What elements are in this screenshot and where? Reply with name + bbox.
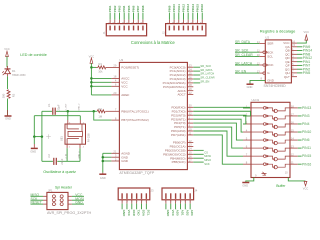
- wire PD0 to ULN1 input 1: [193, 106, 249, 109]
- svg-text:11: 11: [291, 161, 294, 165]
- svg-text:Buffer: Buffer: [276, 184, 286, 188]
- svg-text:18: 18: [113, 75, 116, 79]
- svg-text:GND: GND: [122, 210, 126, 218]
- U2 GND pin 8: [250, 80, 265, 83]
- svg-text:SR_LATCH: SR_LATCH: [200, 72, 214, 76]
- ground (IC): [102, 173, 104, 174]
- connector J1 (matrix): [106, 24, 146, 36]
- J2 pin 4 wire+label PIN12: [183, 26, 184, 31]
- wire+label net SR_SCK at U3: [193, 66, 200, 68]
- svg-text:12: 12: [257, 61, 260, 65]
- svg-text:PIN5: PIN5: [303, 71, 311, 75]
- svg-text:13: 13: [291, 145, 294, 149]
- J2 pin 8 wire+label PIN16: [202, 26, 203, 31]
- connector JP1 SPI header: [47, 192, 68, 209]
- svg-text:10: 10: [285, 171, 288, 175]
- J1 pin 2 wire+label PIN2: [114, 26, 115, 31]
- svg-text:22pF: 22pF: [57, 104, 61, 110]
- svg-text:PIN4: PIN4: [302, 122, 310, 126]
- svg-text:LED de contrôle: LED de contrôle: [20, 53, 46, 57]
- ULN1 channel 3 pins 3/16 label PIN4: [243, 123, 251, 125]
- IC U2 SN74HC595D shift register box: [265, 40, 291, 83]
- J1 pin 4 wire+label PIN4: [123, 26, 124, 31]
- svg-text:JP1: JP1: [48, 188, 53, 192]
- svg-text:PC6(RESET): PC6(RESET): [121, 66, 139, 70]
- U2 pin 4 QE wire+label PIN1: [291, 61, 297, 63]
- svg-text:G: G: [267, 71, 270, 75]
- junction AVCC: [90, 77, 93, 80]
- svg-text:U2: U2: [265, 36, 269, 40]
- J1 pin 3 wire+label PIN3: [119, 26, 120, 31]
- wire VCC trunk vertical: [90, 63, 92, 95]
- svg-text:PIN11: PIN11: [302, 146, 311, 150]
- wire ground left vertical: [33, 116, 35, 137]
- svg-text:PIN12: PIN12: [181, 4, 185, 13]
- svg-text:GND: GND: [267, 79, 275, 83]
- junction ground link dots: [33, 135, 36, 138]
- svg-text:390: 390: [1, 93, 5, 98]
- wire D1 to resistor R3: [7, 76, 9, 89]
- svg-text:VCC: VCC: [171, 210, 175, 217]
- wire VCC pin6: [91, 85, 111, 87]
- connector J3: [118, 188, 150, 200]
- svg-text:SR_SCK: SR_SCK: [200, 64, 211, 68]
- ULN1 GND pin 9: [246, 178, 254, 183]
- svg-text:PIN7: PIN7: [136, 5, 140, 12]
- JP1 wire+label GND: [68, 203, 72, 205]
- IC ULN1 buffer box: [251, 102, 290, 177]
- U2 pin 6 QG wire+label PIN2: [291, 68, 297, 70]
- JP1 wire+label RESET: [31, 203, 44, 205]
- svg-text:PIN11: PIN11: [177, 4, 181, 13]
- resistor R3 390: [7, 90, 10, 99]
- U2 pin 1 QB wire+label PIN14: [291, 50, 297, 52]
- svg-text:GND_4: GND_4: [78, 151, 80, 159]
- svg-text:1: 1: [69, 147, 71, 149]
- svg-text:GND: GND: [100, 176, 106, 180]
- svg-text:RXD: RXD: [132, 210, 136, 217]
- JP1 wire+label SCK: [31, 199, 44, 201]
- wire XTAL1 net (top): [42, 110, 52, 112]
- svg-text:Connexions à la Matrice: Connexions à la Matrice: [131, 40, 176, 45]
- J4 pin 6 wire+label AD3: [189, 193, 190, 199]
- wire+label net SR_EN at U3: [193, 82, 200, 84]
- LED D1: [2, 69, 10, 75]
- svg-text:17: 17: [291, 112, 294, 116]
- J1 pin 8 wire+label PIN8: [142, 26, 143, 31]
- capacitor C1 22pF: [52, 108, 54, 115]
- JP1 pin circles 3/4: [52, 199, 55, 202]
- svg-text:GND: GND: [30, 150, 36, 154]
- U2 pin 13 G wire+label SR_EN: [235, 72, 259, 74]
- svg-text:HSMX-C650: HSMX-C650: [12, 74, 26, 77]
- J2 pin 7 wire+label PIN15: [197, 26, 198, 31]
- J4 pin 3 wire+label AD0: [175, 193, 176, 199]
- ULN1 channel 2 pins 2/17 label PIN3: [243, 115, 251, 117]
- JP1 wire+label VCC: [68, 195, 72, 197]
- U2 pin 15 QA wire+label PIN9: [291, 46, 297, 48]
- svg-text:PIN1: PIN1: [108, 5, 112, 12]
- connector J2 (matrix): [166, 24, 206, 36]
- svg-text:6: 6: [59, 204, 60, 206]
- svg-text:GND: GND: [75, 201, 83, 205]
- J3 pin 1 wire+label GND: [121, 193, 122, 199]
- JP1 wire+label MOSI: [68, 199, 72, 201]
- svg-text:PIN14: PIN14: [191, 4, 195, 13]
- svg-text:PIN3: PIN3: [302, 114, 310, 118]
- svg-text:GND: GND: [247, 85, 253, 89]
- junction X_OUT node: [67, 110, 70, 113]
- wire+label net SCK at U3: [193, 161, 203, 163]
- svg-text:MOSI: MOSI: [204, 154, 211, 158]
- svg-text:PB5(SCK): PB5(SCK): [172, 160, 186, 164]
- svg-text:R2: R2: [98, 107, 102, 111]
- J3 pin 6 wire+label SCL: [146, 193, 147, 199]
- JP1 wire+label MISO: [31, 195, 44, 197]
- svg-text:18: 18: [291, 104, 294, 108]
- J3 pin 3 wire+label RXD: [131, 193, 132, 199]
- svg-text:SR_LATCH: SR_LATCH: [235, 62, 253, 66]
- svg-text:ATMEGA328P_TQFP: ATMEGA328P_TQFP: [119, 171, 154, 175]
- svg-text:16: 16: [292, 39, 295, 43]
- svg-text:SR_DATA: SR_DATA: [235, 40, 251, 44]
- svg-text:PIN6: PIN6: [132, 5, 136, 12]
- svg-text:SER: SER: [267, 42, 274, 46]
- svg-text:VCC: VCC: [304, 30, 310, 34]
- svg-text:RCK: RCK: [267, 63, 273, 67]
- svg-text:1: 1: [55, 196, 56, 198]
- svg-text:GND: GND: [121, 159, 129, 163]
- node origin cross: [46, 134, 51, 139]
- svg-text:R1: R1: [99, 62, 103, 66]
- svg-text:J4: J4: [194, 189, 197, 193]
- svg-text:15: 15: [291, 128, 294, 132]
- svg-text:AD1: AD1: [180, 210, 184, 216]
- ULN1 channel 5 pins 5/14 label PIN6: [243, 139, 251, 141]
- J2 pin 3 wire+label PIN11: [178, 26, 179, 31]
- J2 pin 6 wire+label PIN14: [192, 26, 193, 31]
- J1 pin 5 wire+label PIN5: [128, 26, 129, 31]
- svg-text:13: 13: [257, 70, 260, 74]
- svg-text:1M: 1M: [98, 114, 102, 118]
- svg-text:GND: GND: [166, 210, 170, 218]
- wire AVCC: [91, 77, 111, 79]
- wire XTAL2 net (bottom): [42, 160, 53, 162]
- svg-text:Oscillateur à quartz: Oscillateur à quartz: [43, 170, 76, 174]
- svg-text:SCK: SCK: [204, 162, 210, 166]
- ULN1 channel 6 pins 6/13 label PIN11: [243, 147, 251, 149]
- svg-text:J1: J1: [102, 31, 106, 34]
- svg-text:4: 4: [59, 200, 60, 202]
- svg-text:GND_2: GND_2: [78, 103, 80, 111]
- svg-text:16: 16: [291, 120, 294, 124]
- crystal pin stubs: [67, 111, 69, 120]
- svg-text:PIN16: PIN16: [302, 162, 311, 166]
- wire PD3 to ULN1 input 4: [193, 119, 243, 132]
- svg-text:SCL: SCL: [267, 55, 273, 59]
- svg-text:PIN15: PIN15: [302, 154, 311, 158]
- J4 pin 2 wire+label VCC: [170, 193, 171, 199]
- J4 pin 5 wire+label AD2: [185, 193, 186, 199]
- svg-text:PIN3: PIN3: [117, 5, 121, 12]
- ground (oscillator): [31, 147, 38, 149]
- svg-text:PIN9: PIN9: [167, 5, 171, 12]
- wire XTAL2 to pin 8: [94, 111, 112, 120]
- svg-text:AD3: AD3: [190, 210, 194, 216]
- svg-text:29: 29: [113, 64, 116, 68]
- svg-text:PIN8: PIN8: [141, 5, 145, 12]
- svg-text:SR_DATA: SR_DATA: [200, 68, 212, 72]
- J4 pin 4 wire+label AD1: [180, 193, 181, 199]
- ULN1 channel 1 pins 1/18 label PIN13: [243, 107, 251, 109]
- wire+label net SR_LATCH at U3: [193, 74, 200, 76]
- svg-text:AD2: AD2: [185, 210, 189, 216]
- wire AREF: [91, 94, 111, 96]
- J2 pin 2 wire+label PIN10: [173, 26, 174, 31]
- junction VCC pin4: [90, 81, 93, 84]
- wire PD4 to ULN1 input 5: [193, 123, 243, 140]
- ULN1 COM pin 10 to VCC: [288, 178, 305, 181]
- ground (U2): [247, 83, 254, 85]
- wire PD7 to ULN1 input 8: [193, 135, 243, 164]
- svg-text:12: 12: [291, 153, 294, 157]
- J2 pin 1 wire+label PIN9: [169, 26, 170, 31]
- wire PD5 to ULN1 input 6: [193, 127, 243, 148]
- U2 pin 3 QD wire+label PIN12: [291, 57, 297, 59]
- J1 pin 6 wire+label PIN6: [133, 26, 134, 31]
- svg-text:11: 11: [257, 49, 260, 53]
- svg-text:C1: C1: [47, 103, 51, 107]
- svg-text:PIN10: PIN10: [172, 4, 176, 13]
- svg-text:X_IN: X_IN: [66, 153, 68, 158]
- J2 pin 5 wire+label PIN13: [187, 26, 188, 31]
- wire PD1 to ULN1 input 2: [193, 111, 250, 116]
- wire R3 to ground: [7, 99, 9, 116]
- capacitor C2 22pF: [53, 158, 55, 165]
- svg-text:PIN16: PIN16: [200, 4, 204, 13]
- JP1 pin circles 5/6: [52, 203, 55, 206]
- wire PD2 to ULN1 input 3: [193, 115, 246, 124]
- svg-text:PB6(XTAL1/TOSC1): PB6(XTAL1/TOSC1): [121, 109, 148, 113]
- ULN1 channel 8 pins 8/11 label PIN16: [243, 163, 251, 165]
- U2 pin 7 QH wire+label PIN5: [291, 72, 297, 74]
- svg-text:MISO: MISO: [204, 158, 211, 162]
- wire VCC to LED D1: [6, 57, 8, 68]
- svg-text:PIN13: PIN13: [186, 4, 190, 13]
- svg-text:AREF: AREF: [121, 93, 129, 97]
- power VCC (ULN1): [304, 181, 307, 186]
- svg-text:10: 10: [257, 53, 260, 57]
- svg-text:PIN6: PIN6: [302, 138, 310, 142]
- wire crystal GND_2: [34, 115, 80, 117]
- wire PD6 to ULN1 input 7: [193, 131, 243, 156]
- wire+label net MOSI at U3: [193, 153, 203, 155]
- svg-text:U3: U3: [119, 58, 123, 62]
- junction VCC pin6: [90, 85, 93, 88]
- svg-text:Spi Header: Spi Header: [55, 186, 73, 190]
- wire VCC to R1: [91, 66, 96, 68]
- svg-text:SR_CLEAR: SR_CLEAR: [200, 76, 214, 80]
- svg-text:SDA: SDA: [142, 210, 146, 217]
- wire+label net CS at U3: [193, 149, 203, 151]
- J4 pin 1 wire+label GND: [165, 193, 166, 199]
- svg-text:AVR_SPI_PROG_3X2PTH: AVR_SPI_PROG_3X2PTH: [47, 211, 92, 215]
- wire VCC pin4: [91, 81, 111, 83]
- svg-text:FA-238: FA-238: [87, 133, 91, 142]
- ground (ULN1): [242, 182, 249, 184]
- svg-text:QH*: QH*: [284, 75, 291, 79]
- svg-text:21: 21: [113, 150, 116, 154]
- svg-text:GND: GND: [5, 117, 11, 121]
- wire ground link: [34, 136, 42, 138]
- U2 pin QH* serial out: [291, 76, 297, 78]
- svg-text:PB7(XTAL2/TOSC2): PB7(XTAL2/TOSC2): [121, 118, 148, 122]
- svg-text:PIN15: PIN15: [196, 4, 200, 13]
- svg-text:PD7(AIN1): PD7(AIN1): [171, 133, 186, 137]
- svg-text:SR_CLEAR: SR_CLEAR: [235, 53, 253, 57]
- svg-text:SCL: SCL: [146, 210, 150, 216]
- U2 pin 11 SCK wire+label SR_SCK: [235, 51, 259, 53]
- junction GND pin5: [102, 160, 105, 163]
- svg-text:SN74HC595D: SN74HC595D: [264, 84, 287, 88]
- wire to ground symbol: [33, 137, 35, 144]
- svg-text:3: 3: [55, 200, 56, 202]
- U2 pin 12 RCK wire+label SR_LATCH: [235, 64, 259, 66]
- junction R1 tap: [90, 66, 93, 69]
- wire AGND/GND trunk: [103, 152, 112, 154]
- svg-text:VCC: VCC: [121, 84, 128, 88]
- svg-text:GND: GND: [242, 184, 248, 188]
- IC U3 ATMEGA328P_TQFP box: [119, 62, 187, 169]
- J1 pin 7 wire+label PIN7: [138, 26, 139, 31]
- svg-text:AD0: AD0: [176, 210, 180, 216]
- svg-text:X_OUT: X_OUT: [66, 103, 68, 111]
- J3 pin 4 wire+label TXD: [136, 193, 137, 199]
- svg-text:TXD: TXD: [137, 210, 141, 217]
- svg-text:ULN1: ULN1: [252, 98, 260, 102]
- J3 pin 5 wire+label SDA: [141, 193, 142, 199]
- svg-text:10k: 10k: [98, 70, 103, 74]
- wire+label net SR_DATA at U3: [193, 70, 200, 72]
- svg-text:RESET: RESET: [31, 201, 42, 205]
- wire C1/C2 ground vertical: [41, 111, 43, 161]
- U2 pin 10 SCL wire+label SR_CLEAR: [235, 55, 259, 57]
- resistor R1 10k: [96, 66, 98, 68]
- crystal U$1 FA-238: [65, 124, 86, 144]
- resistor R2 1M: [94, 110, 97, 112]
- svg-text:PIN2: PIN2: [113, 5, 117, 12]
- junction XTAL1: [93, 110, 96, 113]
- svg-text:2: 2: [59, 196, 60, 198]
- svg-text:5: 5: [55, 204, 56, 206]
- svg-text:R3: R3: [12, 93, 16, 97]
- svg-text:20: 20: [113, 91, 116, 95]
- svg-text:SR_EN: SR_EN: [235, 70, 247, 74]
- ULN1 common diode symbol: [262, 172, 267, 175]
- wire+label net SR_CLEAR at U3: [193, 78, 200, 80]
- svg-text:J3: J3: [151, 189, 154, 193]
- svg-text:22pF: 22pF: [60, 158, 64, 164]
- svg-text:ADC7: ADC7: [177, 93, 185, 97]
- J1 pin 1 wire+label PIN1: [109, 26, 110, 31]
- svg-text:PIN13: PIN13: [302, 106, 311, 110]
- connector J4: [162, 188, 194, 200]
- U2 pin 5 QF wire+label PIN7: [291, 64, 297, 66]
- wire+label net MISO at U3: [193, 157, 203, 159]
- svg-text:C2: C2: [47, 154, 51, 158]
- svg-text:D1: D1: [12, 69, 16, 73]
- U2 VCC pin 16: [291, 42, 297, 44]
- svg-text:J2: J2: [161, 31, 165, 34]
- U2 pin 14 SER wire+label SR_DATA: [235, 43, 259, 45]
- U2 pin 2 QC wire+label PIN8: [291, 53, 297, 55]
- ULN1 channel 7 pins 7/12 label PIN15: [243, 155, 251, 157]
- svg-text:14: 14: [291, 136, 294, 140]
- svg-text:CS: CS: [204, 150, 208, 154]
- svg-text:PIN10: PIN10: [302, 130, 311, 134]
- ground (LED branch): [5, 115, 12, 117]
- svg-text:Registre à décalage: Registre à décalage: [260, 29, 296, 34]
- JP1 pin circles 1/2: [52, 195, 55, 198]
- svg-text:SR_EN: SR_EN: [200, 80, 209, 84]
- svg-text:15: 15: [292, 43, 295, 47]
- svg-text:VCC: VCC: [127, 210, 131, 217]
- junction GND pin3: [102, 156, 105, 159]
- J3 pin 2 wire+label VCC: [126, 193, 127, 199]
- svg-text:PIN5: PIN5: [127, 5, 131, 12]
- ULN1 channel 4 pins 4/15 label PIN10: [243, 131, 251, 133]
- svg-text:14: 14: [257, 40, 260, 44]
- svg-text:VCC: VCC: [303, 186, 309, 190]
- svg-text:U$1: U$1: [60, 136, 64, 141]
- svg-text:PIN4: PIN4: [122, 5, 126, 12]
- svg-text:4: 4: [83, 147, 85, 149]
